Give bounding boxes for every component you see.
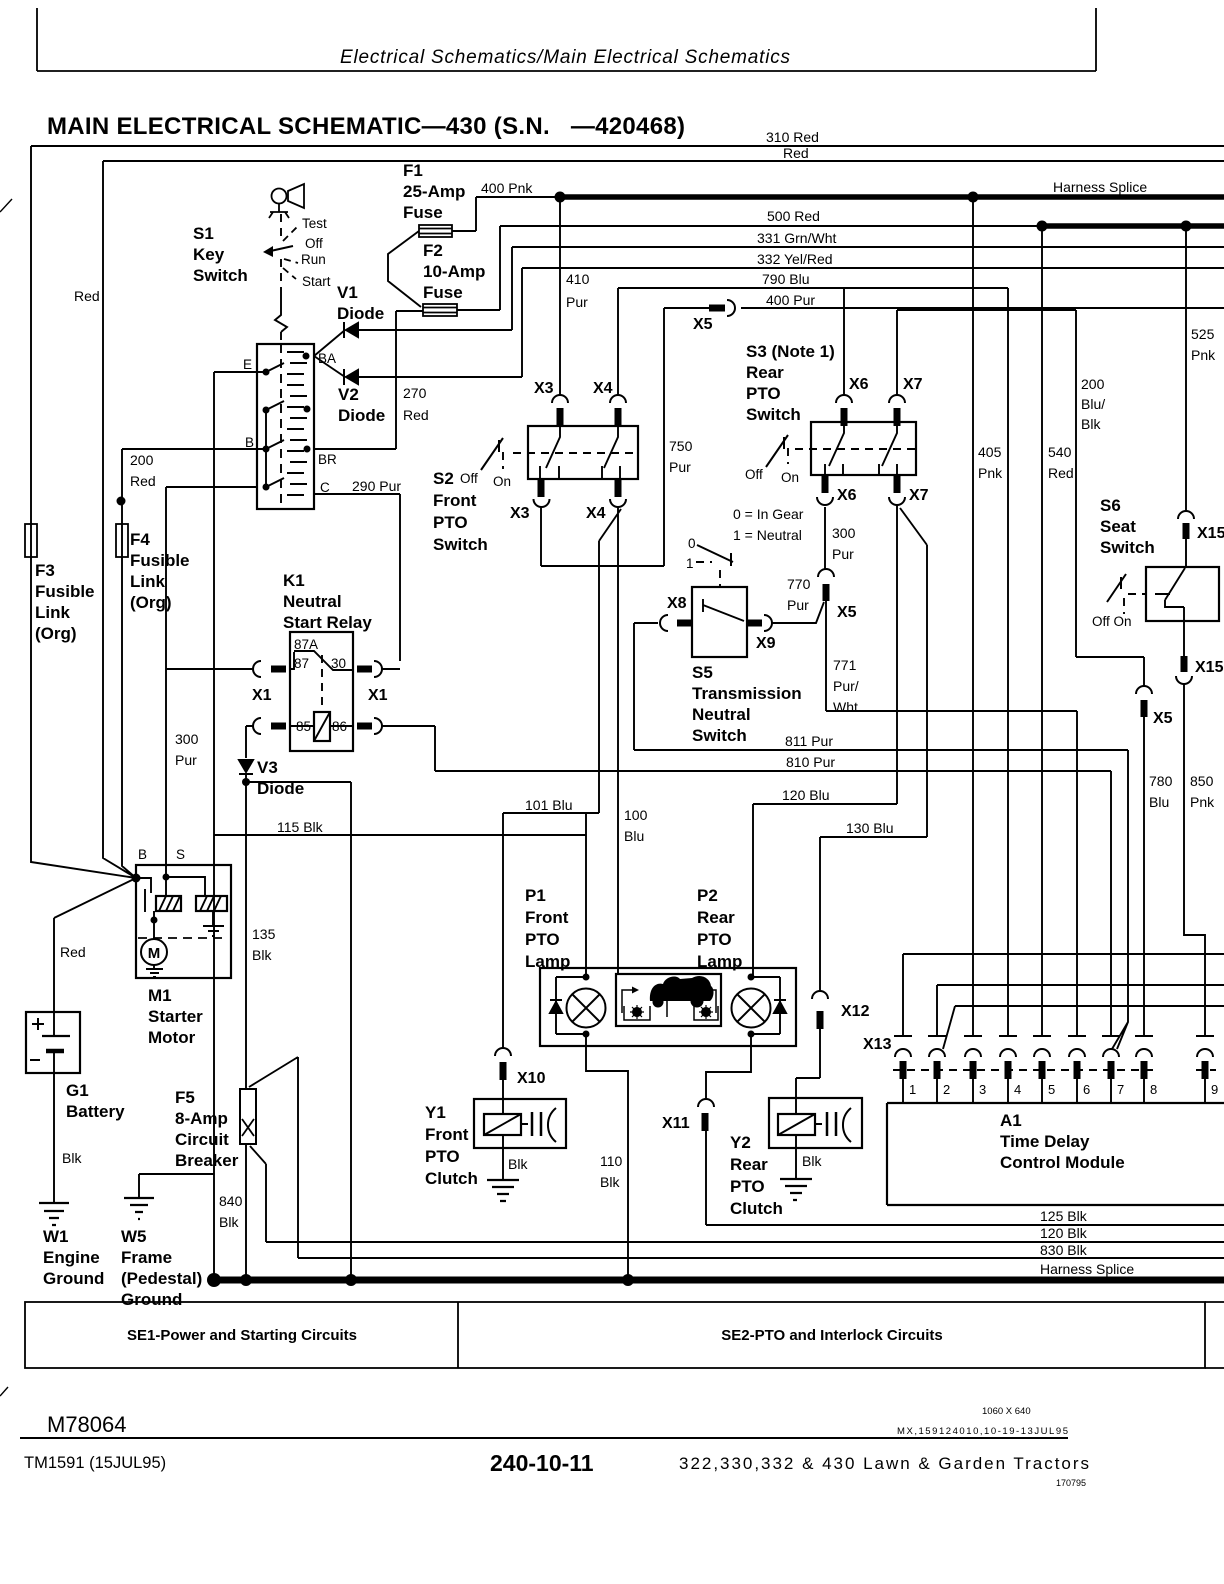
svg-text:Control Module: Control Module [1000, 1153, 1125, 1172]
svg-text:X4: X4 [593, 380, 613, 397]
svg-text:MX,159124010,10-19-13JUL95: MX,159124010,10-19-13JUL95 [897, 1426, 1068, 1437]
svg-text:120 Blk: 120 Blk [1040, 1225, 1088, 1241]
svg-text:Red: Red [60, 944, 86, 960]
svg-text:8-Amp: 8-Amp [175, 1109, 228, 1128]
svg-text:PTO: PTO [730, 1177, 765, 1196]
svg-text:300: 300 [832, 525, 856, 541]
svg-text:W5: W5 [121, 1227, 147, 1246]
svg-text:Time Delay: Time Delay [1000, 1132, 1090, 1151]
svg-text:101 Blu: 101 Blu [525, 797, 572, 813]
svg-text:87A: 87A [294, 637, 318, 652]
svg-text:(Org): (Org) [35, 624, 77, 643]
svg-text:400 Pur: 400 Pur [766, 292, 815, 308]
svg-text:Motor: Motor [148, 1028, 196, 1047]
svg-text:Lamp: Lamp [525, 952, 570, 971]
svg-text:Pnk: Pnk [978, 465, 1003, 481]
svg-text:Pur: Pur [669, 459, 691, 475]
svg-text:Test: Test [302, 216, 327, 231]
svg-text:0 = In Gear: 0 = In Gear [733, 506, 804, 522]
svg-text:Link: Link [35, 603, 70, 622]
svg-text:Run: Run [301, 252, 326, 267]
svg-text:F2: F2 [423, 241, 443, 260]
svg-text:Circuit: Circuit [175, 1130, 229, 1149]
svg-text:TM1591 (15JUL95): TM1591 (15JUL95) [24, 1454, 166, 1472]
svg-text:Ground: Ground [121, 1290, 182, 1309]
svg-text:332 Yel/Red: 332 Yel/Red [757, 251, 833, 267]
svg-text:X11: X11 [662, 1115, 690, 1132]
svg-text:W1: W1 [43, 1227, 69, 1246]
svg-text:X10: X10 [517, 1070, 546, 1087]
svg-text:25-Amp: 25-Amp [403, 182, 465, 201]
svg-text:Lamp: Lamp [697, 952, 742, 971]
svg-text:130 Blu: 130 Blu [846, 820, 893, 836]
svg-text:500 Red: 500 Red [767, 208, 820, 224]
svg-text:331 Grn/Wht: 331 Grn/Wht [757, 230, 836, 246]
svg-text:Blu/: Blu/ [1081, 396, 1105, 412]
svg-text:X8: X8 [667, 595, 687, 612]
svg-text:4: 4 [1014, 1082, 1021, 1097]
svg-text:Blk: Blk [1081, 416, 1101, 432]
svg-text:3: 3 [979, 1082, 986, 1097]
svg-text:400 Pnk: 400 Pnk [481, 180, 533, 196]
svg-text:Y2: Y2 [730, 1133, 751, 1152]
svg-text:1: 1 [686, 556, 694, 571]
svg-text:Off: Off [460, 471, 478, 486]
svg-text:Start: Start [302, 274, 331, 289]
svg-text:Rear: Rear [730, 1155, 768, 1174]
svg-text:Neutral: Neutral [692, 705, 751, 724]
svg-text:S1: S1 [193, 224, 214, 243]
svg-text:M: M [148, 945, 161, 962]
svg-text:850: 850 [1190, 773, 1214, 789]
svg-text:322,330,332 & 430 Lawn & Garde: 322,330,332 & 430 Lawn & Garden Tractors [679, 1454, 1089, 1473]
svg-text:Red: Red [403, 407, 429, 423]
svg-text:Fusible: Fusible [35, 582, 95, 601]
svg-text:S: S [176, 847, 185, 862]
svg-text:790 Blu: 790 Blu [762, 271, 809, 287]
svg-text:S2: S2 [433, 469, 454, 488]
svg-text:MAIN ELECTRICAL SCHEMATIC—430: MAIN ELECTRICAL SCHEMATIC—430 (S.N. —420… [47, 113, 685, 140]
svg-text:Blk: Blk [600, 1174, 620, 1190]
svg-text:30: 30 [331, 656, 346, 671]
svg-text:BR: BR [318, 452, 337, 467]
svg-text:5: 5 [1048, 1082, 1055, 1097]
svg-text:540: 540 [1048, 444, 1072, 460]
svg-text:Red: Red [130, 473, 156, 489]
svg-text:B: B [138, 847, 147, 862]
svg-text:P1: P1 [525, 886, 546, 905]
svg-text:Pur: Pur [787, 597, 809, 613]
svg-text:X1: X1 [368, 687, 388, 704]
svg-text:85: 85 [296, 719, 311, 734]
svg-text:Switch: Switch [1100, 538, 1155, 557]
svg-text:Breaker: Breaker [175, 1151, 239, 1170]
svg-text:Off On: Off On [1092, 614, 1132, 629]
svg-text:770: 770 [787, 576, 811, 592]
svg-text:X1: X1 [252, 687, 272, 704]
svg-text:750: 750 [669, 438, 693, 454]
svg-text:Electrical Schematics/Main Ele: Electrical Schematics/Main Electrical Sc… [340, 47, 791, 68]
svg-text:PTO: PTO [425, 1147, 460, 1166]
svg-text:Off: Off [305, 236, 323, 251]
svg-text:Blu: Blu [1149, 794, 1169, 810]
svg-text:X6: X6 [849, 376, 869, 393]
svg-text:Clutch: Clutch [425, 1169, 478, 1188]
svg-text:Switch: Switch [692, 726, 747, 745]
svg-text:S3 (Note 1): S3 (Note 1) [746, 342, 835, 361]
svg-text:86: 86 [332, 719, 347, 734]
svg-text:110: 110 [600, 1153, 623, 1169]
svg-text:771: 771 [833, 657, 857, 673]
svg-text:P2: P2 [697, 886, 718, 905]
svg-text:170795: 170795 [1056, 1478, 1086, 1488]
svg-text:K1: K1 [283, 571, 305, 590]
svg-text:Blk: Blk [802, 1153, 822, 1169]
svg-text:Blk: Blk [252, 947, 272, 963]
svg-text:Blk: Blk [508, 1156, 528, 1172]
svg-text:X15: X15 [1195, 659, 1224, 676]
svg-text:0: 0 [688, 536, 696, 551]
svg-text:X7: X7 [909, 487, 929, 504]
svg-text:(Org): (Org) [130, 593, 172, 612]
svg-text:V3: V3 [257, 758, 278, 777]
svg-text:Neutral: Neutral [283, 592, 342, 611]
svg-text:Start Relay: Start Relay [283, 613, 372, 632]
svg-text:PTO: PTO [433, 513, 468, 532]
svg-text:Blk: Blk [62, 1150, 82, 1166]
svg-text:115 Blk: 115 Blk [277, 819, 324, 835]
svg-text:Diode: Diode [338, 406, 385, 425]
svg-text:Red: Red [1048, 465, 1074, 481]
svg-text:120 Blu: 120 Blu [782, 787, 829, 803]
svg-text:M1: M1 [148, 986, 172, 1005]
svg-text:Rear: Rear [697, 908, 735, 927]
svg-text:Ground: Ground [43, 1269, 104, 1288]
svg-text:Pnk: Pnk [1190, 794, 1215, 810]
svg-text:X13: X13 [863, 1036, 892, 1053]
svg-text:Off: Off [745, 467, 763, 482]
svg-text:SE2-PTO and Interlock Circuits: SE2-PTO and Interlock Circuits [721, 1327, 942, 1344]
svg-text:1: 1 [909, 1082, 916, 1097]
svg-text:135: 135 [252, 926, 276, 942]
svg-text:6: 6 [1083, 1082, 1090, 1097]
svg-text:405: 405 [978, 444, 1002, 460]
svg-text:Pur: Pur [832, 546, 854, 562]
svg-text:200: 200 [130, 452, 154, 468]
svg-text:Fusible: Fusible [130, 551, 190, 570]
svg-text:840: 840 [219, 1193, 243, 1209]
svg-text:S5: S5 [692, 663, 713, 682]
svg-text:Fuse: Fuse [403, 203, 443, 222]
svg-text:X7: X7 [903, 376, 923, 393]
svg-text:X6: X6 [837, 487, 857, 504]
svg-text:87: 87 [294, 656, 309, 671]
svg-text:Harness Splice: Harness Splice [1040, 1261, 1134, 1277]
svg-text:1060 X 640: 1060 X 640 [982, 1406, 1031, 1417]
svg-text:8: 8 [1150, 1082, 1157, 1097]
svg-text:830 Blk: 830 Blk [1040, 1242, 1088, 1258]
svg-text:200: 200 [1081, 376, 1105, 392]
svg-text:X9: X9 [756, 635, 776, 652]
svg-text:Switch: Switch [193, 266, 248, 285]
svg-text:100: 100 [624, 807, 648, 823]
svg-text:Seat: Seat [1100, 517, 1136, 536]
svg-text:X3: X3 [510, 505, 530, 522]
svg-text:C: C [320, 480, 330, 495]
svg-text:300: 300 [175, 731, 199, 747]
svg-text:Diode: Diode [337, 304, 384, 323]
svg-text:Red: Red [783, 145, 809, 161]
svg-text:9: 9 [1211, 1082, 1218, 1097]
svg-text:X5: X5 [837, 604, 857, 621]
svg-text:Frame: Frame [121, 1248, 172, 1267]
svg-text:X5: X5 [693, 316, 713, 333]
svg-text:V2: V2 [338, 385, 359, 404]
svg-text:PTO: PTO [525, 930, 560, 949]
svg-text:Y1: Y1 [425, 1103, 446, 1122]
svg-text:On: On [781, 470, 799, 485]
svg-text:F1: F1 [403, 161, 423, 180]
svg-text:F3: F3 [35, 561, 55, 580]
svg-text:PTO: PTO [697, 930, 732, 949]
svg-text:Engine: Engine [43, 1248, 100, 1267]
svg-text:F4: F4 [130, 530, 150, 549]
svg-text:Front: Front [433, 491, 477, 510]
svg-text:Key: Key [193, 245, 225, 264]
svg-text:Front: Front [525, 908, 569, 927]
svg-text:M78064: M78064 [47, 1412, 127, 1437]
svg-text:Pur: Pur [175, 752, 197, 768]
svg-text:Harness Splice: Harness Splice [1053, 179, 1147, 195]
svg-text:E: E [243, 357, 252, 372]
svg-text:Diode: Diode [257, 779, 304, 798]
svg-text:Blk: Blk [219, 1214, 239, 1230]
svg-text:X15: X15 [1197, 525, 1224, 542]
svg-text:10-Amp: 10-Amp [423, 262, 485, 281]
svg-text:X12: X12 [841, 1003, 870, 1020]
svg-text:B: B [245, 435, 254, 450]
svg-text:X4: X4 [586, 505, 606, 522]
svg-text:F5: F5 [175, 1088, 195, 1107]
svg-text:Transmission: Transmission [692, 684, 802, 703]
svg-text:Fuse: Fuse [423, 283, 463, 302]
svg-text:Link: Link [130, 572, 165, 591]
svg-text:On: On [493, 474, 511, 489]
svg-text:Pnk: Pnk [1191, 347, 1216, 363]
svg-text:125 Blk: 125 Blk [1040, 1208, 1088, 1224]
svg-text:811 Pur: 811 Pur [785, 733, 833, 749]
svg-text:7: 7 [1117, 1082, 1124, 1097]
svg-text:2: 2 [943, 1082, 950, 1097]
svg-text:310 Red: 310 Red [766, 129, 819, 145]
svg-text:X5: X5 [1153, 710, 1173, 727]
svg-text:S6: S6 [1100, 496, 1121, 515]
svg-text:Battery: Battery [66, 1102, 125, 1121]
svg-text:Rear: Rear [746, 363, 784, 382]
svg-text:A1: A1 [1000, 1111, 1022, 1130]
svg-text:Switch: Switch [433, 535, 488, 554]
svg-text:1 = Neutral: 1 = Neutral [733, 527, 802, 543]
svg-text:240-10-11: 240-10-11 [490, 1450, 594, 1476]
svg-text:V1: V1 [337, 283, 358, 302]
svg-text:290 Pur: 290 Pur [352, 478, 401, 494]
svg-text:Red: Red [74, 288, 100, 304]
svg-text:SE1-Power and Starting Circuit: SE1-Power and Starting Circuits [127, 1327, 357, 1344]
svg-text:780: 780 [1149, 773, 1173, 789]
svg-text:270: 270 [403, 385, 427, 401]
svg-text:Pur: Pur [566, 294, 588, 310]
svg-text:Wht: Wht [833, 699, 858, 715]
svg-text:Front: Front [425, 1125, 469, 1144]
svg-text:X3: X3 [534, 380, 554, 397]
svg-text:BA: BA [318, 351, 336, 366]
svg-text:525: 525 [1191, 326, 1215, 342]
svg-text:810 Pur: 810 Pur [786, 754, 835, 770]
svg-text:Starter: Starter [148, 1007, 203, 1026]
svg-text:Blu: Blu [624, 828, 644, 844]
svg-text:410: 410 [566, 271, 590, 287]
svg-text:Clutch: Clutch [730, 1199, 783, 1218]
svg-text:(Pedestal): (Pedestal) [121, 1269, 202, 1288]
svg-text:Switch: Switch [746, 405, 801, 424]
svg-text:G1: G1 [66, 1081, 89, 1100]
svg-text:PTO: PTO [746, 384, 781, 403]
svg-text:Pur/: Pur/ [833, 678, 859, 694]
